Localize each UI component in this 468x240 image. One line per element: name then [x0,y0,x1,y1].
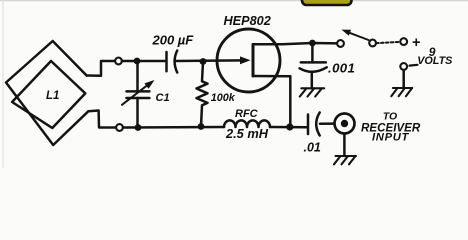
svg-text:VOLTS: VOLTS [417,55,453,67]
svg-text:HEP802: HEP802 [224,14,271,28]
svg-text:.01: .01 [304,141,321,155]
svg-text:C1: C1 [156,92,170,104]
svg-text:INPUT: INPUT [372,131,410,143]
svg-text:2.5 mH: 2.5 mH [225,126,269,141]
svg-text:+: + [412,35,421,51]
svg-text:RFC: RFC [235,108,259,120]
svg-text:L1: L1 [46,90,59,102]
svg-text:200 µF: 200 µF [152,33,195,48]
svg-text:.001: .001 [328,60,355,75]
svg-text:100k: 100k [211,92,236,104]
